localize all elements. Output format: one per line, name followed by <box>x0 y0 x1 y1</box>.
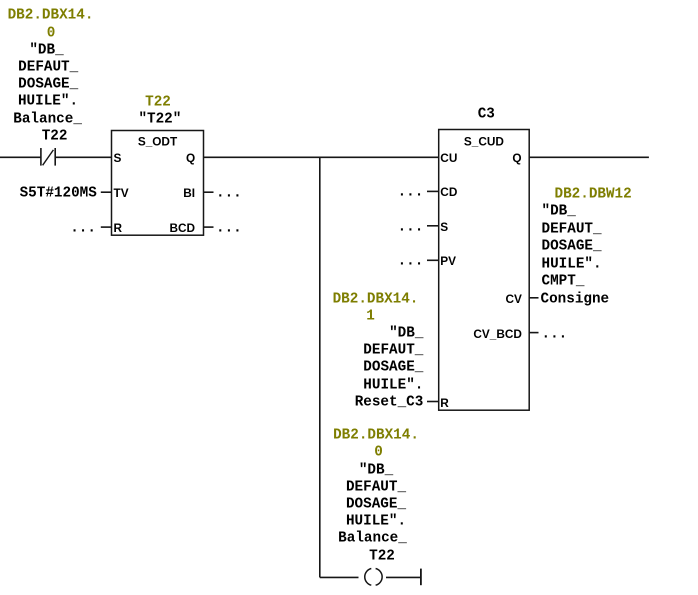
timer pin R <box>114 222 123 234</box>
timer box title S_ODT <box>138 135 177 147</box>
timer pin S <box>114 152 122 164</box>
node D symbol line 4 <box>542 257 602 271</box>
unassigned dots counter CV_BCD <box>542 327 568 341</box>
node A symbol line 1 <box>29 43 63 57</box>
node A symbol line 2 <box>18 60 78 74</box>
wire branch vertical to coil <box>319 157 321 577</box>
node A operand address line 2 <box>47 26 56 40</box>
node E symbol line 5 <box>338 532 407 546</box>
unassigned dots timer R <box>70 222 96 236</box>
node D symbol line 1 <box>542 205 576 219</box>
node A symbol line 6 <box>42 129 68 143</box>
wire coil to terminal <box>386 576 421 578</box>
wire stub R input counter <box>427 401 439 403</box>
timer pin BCD <box>169 222 195 234</box>
node E symbol line 2 <box>346 480 406 494</box>
unassigned dots counter S <box>398 220 424 234</box>
wire contact to timer S input <box>55 156 111 158</box>
unassigned dots timer BCD <box>216 222 242 236</box>
timer pin BI <box>183 187 195 199</box>
node A symbol line 3 <box>18 78 78 92</box>
counter pin CU <box>440 152 457 164</box>
wire stub S input counter <box>427 225 439 227</box>
wire stub BCD output <box>204 226 214 228</box>
node C symbol line 5 Reset_C3 <box>355 395 424 409</box>
coil DB2.DBX14.0 Balance_T22 left parenthesis <box>365 569 372 586</box>
timer pin Q <box>186 152 195 164</box>
node E symbol line 4 <box>346 515 406 529</box>
timer T22 box S_ODT outline <box>112 131 204 236</box>
node C operand address line 1 <box>333 292 419 306</box>
node A symbol line 5 <box>13 112 82 126</box>
wire left rail to contact <box>0 156 41 158</box>
unassigned dots counter CD <box>398 186 424 200</box>
unassigned dots counter PV <box>398 255 424 269</box>
node A operand address line 1 <box>8 9 94 23</box>
timer pin TV <box>114 187 129 199</box>
node D symbol line 2 <box>542 222 602 236</box>
node D symbol line 6 Consigne <box>541 292 610 306</box>
node C operand address line 2 <box>366 309 375 323</box>
counter pin CV <box>506 293 522 305</box>
node C symbol line 1 <box>389 326 423 340</box>
wire stub R input timer <box>101 226 112 228</box>
node D symbol line 3 <box>542 240 602 254</box>
counter pin R <box>440 396 449 408</box>
node E operand address line 2 <box>374 446 383 460</box>
node A symbol line 4 <box>18 95 78 109</box>
wire stub CV_BCD output <box>529 332 538 334</box>
counter pin CD <box>440 186 457 198</box>
unassigned dots timer BI <box>216 187 242 201</box>
wire stub CD input <box>427 190 439 192</box>
node D operand address DB2.DBW12 <box>555 187 632 201</box>
wire counter Q output <box>529 156 649 158</box>
node E symbol line 1 <box>359 463 393 477</box>
counter C3 box S_CUD outline <box>439 130 530 411</box>
counter box title S_CUD <box>464 136 504 148</box>
wire stub PV input <box>427 259 439 261</box>
wire timer Q output to counter CU input <box>204 156 439 158</box>
timer T22 address label <box>145 96 171 110</box>
counter pin PV <box>440 255 456 267</box>
wire stub CV output <box>529 297 538 299</box>
timer T22 symbol label <box>138 113 181 127</box>
node E symbol line 3 <box>346 497 406 511</box>
node C symbol line 3 <box>363 361 423 375</box>
node C symbol line 2 <box>363 344 423 358</box>
wire stub BI output <box>204 191 214 193</box>
value S5T#120MS on TV <box>20 187 97 201</box>
contact DB2.DBX14.0 Balance_T22 (normally closed) <box>41 148 55 166</box>
node D symbol line 5 <box>542 275 585 289</box>
counter C3 address label <box>478 107 495 121</box>
counter pin S <box>440 221 448 233</box>
wire stub TV input <box>101 191 112 193</box>
wire branch corner to coil <box>320 576 359 578</box>
counter pin CV_BCD <box>473 327 522 339</box>
counter pin Q <box>512 152 521 164</box>
node E operand address line 1 <box>333 429 419 443</box>
coil right parenthesis <box>376 569 383 586</box>
coil terminal bar <box>420 569 422 586</box>
node C symbol line 4 <box>363 378 423 392</box>
node E symbol line 6 <box>369 549 395 563</box>
